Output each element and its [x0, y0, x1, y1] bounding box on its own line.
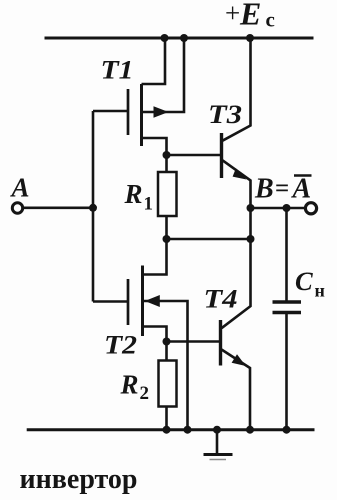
- svg-text:T2: T2: [104, 330, 137, 360]
- wire: T1 substrate lead to +Ec: [142, 38, 185, 112]
- node: output junction dot at capacitor branch: [283, 204, 291, 212]
- wire: R2 bottom to ground rail: [165, 407, 168, 430]
- wire: T4 collector lead: [222, 239, 251, 328]
- wire: N1 to R1 top: [165, 155, 168, 172]
- arrow: T3 emitter arrow: [233, 168, 247, 179]
- wire: bottom ground rail: [27, 428, 315, 431]
- wire: T1 source lead: [142, 138, 167, 155]
- label R1: [124, 179, 154, 215]
- svg-text:1: 1: [144, 194, 154, 215]
- wire: output node horizontal: [251, 207, 306, 210]
- terminal: output B circle: [305, 203, 316, 214]
- wire: capacitor top lead: [285, 208, 288, 301]
- svg-text:инвертор: инвертор: [20, 464, 138, 495]
- ground symbol: [204, 430, 233, 460]
- transistor T3 base bar: [220, 133, 223, 178]
- wire: output node down to middle rail: [249, 208, 252, 239]
- svg-text:C: C: [295, 266, 313, 296]
- wire: T4 emitter lead: [222, 350, 251, 430]
- resistor R1 body: [158, 172, 177, 216]
- svg-text:R: R: [124, 179, 143, 209]
- wire: middle rail: [167, 238, 251, 241]
- capacitor Cn bottom plate: [273, 311, 302, 314]
- node: junction dot T1 substrate on top rail: [180, 34, 188, 42]
- wire: input vertical column to T1/T2 gates: [92, 111, 95, 302]
- wire: T2 source lead: [143, 327, 167, 342]
- label Cn load capacitor: [295, 266, 325, 301]
- svg-text:E: E: [239, 0, 261, 32]
- capacitor Cn top plate: [273, 300, 302, 303]
- label R2: [120, 370, 150, 405]
- node: input junction dot: [89, 204, 97, 212]
- svg-text:T1: T1: [101, 55, 134, 85]
- svg-text:c: c: [266, 8, 275, 32]
- svg-text:T3: T3: [208, 99, 242, 129]
- wire: +Ec top supply rail: [45, 37, 314, 40]
- node: junction dot middle rail right: [247, 235, 255, 243]
- wire: T3 collector lead: [223, 38, 251, 141]
- label +Ec supply: [225, 0, 275, 32]
- arrow: T2 substrate arrow (points left): [145, 295, 160, 307]
- svg-text:R: R: [120, 370, 139, 400]
- transistor T4 base bar: [219, 320, 222, 366]
- svg-text:+: +: [225, 0, 240, 28]
- terminal: input A circle: [12, 203, 22, 213]
- svg-text:н: н: [315, 281, 325, 301]
- transistor T2 channel bar: [141, 266, 144, 337]
- node: N3 junction T2 source / R2 / T4 base: [163, 338, 171, 346]
- wire: capacitor bottom lead: [285, 314, 288, 429]
- svg-text:2: 2: [140, 383, 150, 404]
- svg-text:B: B: [254, 174, 274, 205]
- arrow: T4 emitter arrow: [232, 354, 246, 366]
- wire: T2 gate lead: [93, 300, 128, 303]
- wire: T3 base wire: [167, 154, 221, 157]
- transistor T1 channel bar: [140, 84, 143, 146]
- node: junction dot T1 drain on top rail: [161, 34, 169, 42]
- svg-text:=: =: [275, 175, 289, 202]
- node: N1 junction T1 source / R1 / T3 base: [163, 151, 171, 159]
- node: junction dot T3 collector on top rail: [246, 34, 254, 42]
- svg-text:A: A: [291, 174, 312, 205]
- wire: R1 bottom to middle rail: [165, 216, 168, 239]
- resistor R2 body: [159, 361, 177, 407]
- wire: input A to gate column: [23, 207, 93, 210]
- node: junction dot T2 substrate on bottom rail: [184, 426, 192, 434]
- arrow: T1 substrate arrow (points right): [154, 106, 169, 117]
- node: junction dot R2 on bottom rail: [163, 426, 171, 434]
- svg-text:T4: T4: [204, 284, 238, 314]
- wire: T4 base wire: [167, 340, 220, 343]
- node: junction dot ground stub on bottom rail: [213, 426, 221, 434]
- node: output junction dot left: [247, 204, 255, 212]
- wire: overbar of A: [294, 174, 312, 177]
- label B = A-bar output: [254, 174, 311, 205]
- transistor T2 gate bar: [127, 279, 130, 325]
- wire: T3 emitter lead: [223, 160, 251, 208]
- wire: T1 gate lead: [93, 110, 128, 113]
- wire: N3 to R2 top: [165, 342, 168, 361]
- wire: T1 drain lead: [142, 38, 166, 84]
- svg-text:A: A: [10, 173, 30, 203]
- transistor T1 gate bar: [127, 89, 130, 135]
- node: junction dot capacitor on bottom rail: [283, 426, 291, 434]
- node: junction dot middle rail left: [163, 235, 171, 243]
- node: junction dot T4 emitter on bottom rail: [246, 426, 254, 434]
- wire: T2 drain lead up to middle rail: [143, 239, 167, 275]
- wire: T2 substrate lead to ground: [143, 301, 188, 429]
